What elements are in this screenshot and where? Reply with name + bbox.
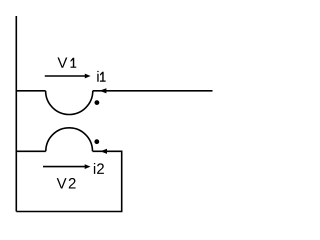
label V2 xyxy=(57,178,76,188)
wire bottom loop horizontal left xyxy=(16,150,46,152)
arrow V1 (pointing right) xyxy=(45,75,86,77)
label V1 xyxy=(57,57,76,67)
wire bottom loop right and bottom sides xyxy=(16,151,121,211)
polarity dot node (loop 1) xyxy=(95,100,100,105)
current arrow i2 head (on bottom loop wire, pointing left) xyxy=(100,149,107,154)
wire top loop horizontal left xyxy=(16,90,45,92)
current arrow i1 head (on top wire, pointing left) xyxy=(99,88,106,93)
inductor L1 (semicircle dip of loop 1) xyxy=(46,91,93,115)
polarity dot node (loop 2) xyxy=(94,139,99,144)
inductor L2 (semicircle hump of loop 2) xyxy=(46,128,93,152)
label i1 xyxy=(97,71,105,82)
wire left vertical bus xyxy=(15,16,17,212)
arrow i2 (pointing right) xyxy=(43,166,86,168)
wire top right lead xyxy=(93,90,213,92)
label i2 xyxy=(94,163,104,174)
